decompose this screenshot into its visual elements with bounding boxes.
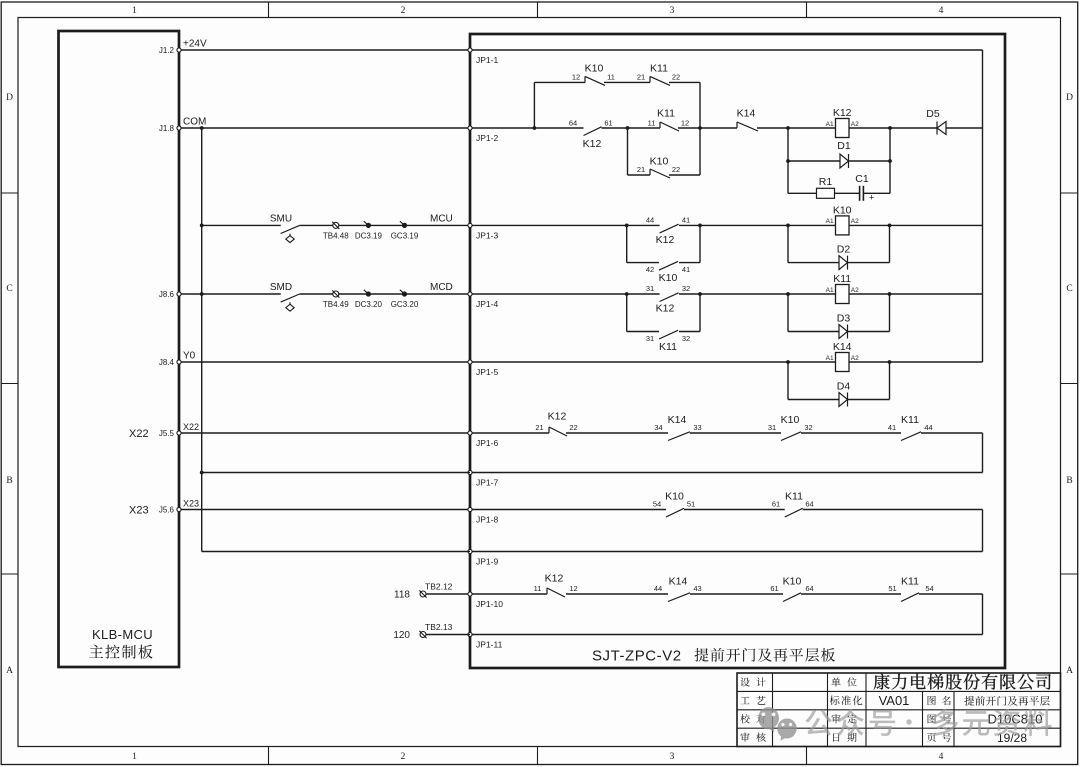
contact K12 44-41 (660, 224, 679, 233)
svg-text:X22: X22 (183, 422, 199, 432)
terminal JP1-3 (468, 223, 472, 227)
contact K14 44-43 (668, 593, 690, 602)
wire JP1-5 row segments (472, 361, 836, 363)
svg-text:JP1-1: JP1-1 (476, 55, 498, 65)
svg-text:D4: D4 (837, 381, 851, 393)
svg-text:+24V: +24V (183, 39, 207, 50)
junction COM bus SMU row (200, 224, 204, 228)
right board box SJT-ZPC-V2 (470, 34, 1005, 668)
junction JP1-4 x626 (625, 292, 629, 296)
svg-text:J5.5: J5.5 (159, 429, 175, 438)
svg-text:A1: A1 (826, 218, 834, 225)
svg-text:34: 34 (654, 423, 662, 432)
wire JP1-9 return row (472, 551, 983, 553)
junction JP1-4 x788 (786, 292, 790, 296)
junction JP1-2 row x890 (888, 126, 892, 130)
junction JP1-5 x788 (786, 360, 790, 364)
svg-text:A: A (1066, 666, 1073, 676)
svg-text:12: 12 (569, 584, 577, 593)
svg-text:D1: D1 (837, 140, 851, 152)
terminal J1.2 (177, 48, 181, 52)
svg-text:MCD: MCD (430, 282, 453, 293)
connector DC3.20 (366, 291, 371, 296)
svg-text:64: 64 (569, 119, 577, 128)
junction JP1-4 x700 (698, 292, 702, 296)
title label standardization (830, 695, 863, 705)
terminal JP1-7 (468, 470, 472, 474)
svg-text:J5.6: J5.6 (159, 506, 175, 515)
junction JP1-3 x890 (888, 224, 892, 228)
junction JP1-3 x788 (786, 224, 790, 228)
svg-text:11: 11 (607, 73, 615, 82)
svg-text:21: 21 (535, 423, 543, 432)
wire JP1-1 internal to right bus (472, 49, 983, 51)
zone dividers left (1, 192, 18, 194)
wire JP1-2 row segments (472, 127, 584, 129)
contact K11 51-54 (901, 593, 919, 602)
contact K11 21-22 (649, 76, 651, 82)
junction COM bus at J1.8 row (200, 126, 204, 130)
junction COM bus JP1-7 (200, 471, 204, 475)
svg-text:DC3.19: DC3.19 (355, 231, 383, 240)
svg-text:D: D (6, 93, 13, 103)
svg-text:A1: A1 (826, 287, 834, 294)
contact K10 31-32 (781, 432, 801, 441)
terminal JP1-8 (468, 507, 472, 511)
wire SMD row J8.6 to JP1-4 (181, 293, 281, 295)
svg-text:K10: K10 (781, 414, 800, 426)
svg-text:44: 44 (646, 216, 654, 225)
svg-text:X23: X23 (183, 498, 199, 508)
wire JP1-3 row segments (472, 224, 660, 226)
branch vertical x627 down (627, 128, 629, 175)
svg-text:K12: K12 (583, 138, 602, 150)
svg-text:54: 54 (653, 500, 661, 509)
terminal J5.5 (177, 431, 181, 435)
terminal J8.4 (177, 360, 181, 364)
terminal JP1-5 (468, 360, 472, 364)
connector TB2.13 (420, 632, 426, 638)
branch wire K10-K11 series top (534, 81, 585, 83)
svg-text:D5: D5 (926, 108, 940, 120)
svg-text:KLB-MCU: KLB-MCU (92, 627, 153, 642)
company name Canny Elevator Co Ltd (874, 674, 1051, 690)
connector TB2.12 (420, 591, 426, 597)
svg-text:12: 12 (681, 119, 689, 128)
watermark text gongzhonghao (805, 709, 895, 736)
svg-text:61: 61 (770, 584, 778, 593)
svg-text:31: 31 (646, 284, 654, 293)
junction D1 left (786, 159, 790, 163)
terminal JP1-4 (468, 292, 472, 296)
terminal JP1-10 (468, 592, 472, 596)
svg-text:12: 12 (572, 73, 580, 82)
zone dividers right (1061, 192, 1078, 194)
junction JP1-2 row x627 (626, 126, 630, 130)
junction JP1-3 x700 (698, 224, 702, 228)
title label review (740, 733, 749, 742)
svg-text:3: 3 (670, 6, 675, 16)
svg-text:K11: K11 (901, 575, 919, 587)
svg-text:21: 21 (637, 165, 645, 174)
branch vertical right x700 (699, 82, 701, 175)
svg-text:Y0: Y0 (183, 351, 196, 362)
title label proofread (740, 714, 750, 723)
wire JP1-6 row segments (472, 432, 550, 434)
svg-text:3: 3 (670, 752, 675, 762)
value drawing title CJK (964, 696, 1049, 706)
svg-text:K14: K14 (737, 108, 756, 120)
svg-text:33: 33 (693, 423, 701, 432)
svg-text:2: 2 (401, 752, 406, 762)
svg-text:41: 41 (682, 216, 690, 225)
terminal JP1-1 (468, 48, 472, 52)
svg-text:A2: A2 (851, 218, 859, 225)
capacitor C1 (859, 186, 861, 201)
svg-text:K12: K12 (656, 303, 675, 315)
svg-text:120: 120 (393, 630, 410, 641)
left board box KLB-MCU (59, 31, 180, 667)
branch wire K10 21-22 below (628, 174, 651, 176)
svg-text:22: 22 (569, 423, 577, 432)
resistor R1 (817, 188, 835, 198)
svg-text:11: 11 (534, 584, 542, 593)
connector GC3.20 (402, 291, 407, 296)
svg-text:J1.2: J1.2 (159, 46, 175, 55)
svg-text:A2: A2 (851, 287, 859, 294)
connector TB4.48 (333, 222, 339, 228)
svg-text:K12: K12 (548, 411, 567, 423)
relay coil K10 (836, 216, 850, 235)
svg-text:K10: K10 (783, 575, 802, 587)
svg-text:K14: K14 (669, 575, 688, 587)
U-turn vertical JP1-10 to JP1-11 (982, 594, 984, 635)
svg-text:A1: A1 (826, 121, 834, 128)
wire D1 branch (788, 160, 840, 162)
contact K12 64-61 (584, 127, 602, 136)
svg-text:43: 43 (693, 584, 701, 593)
svg-text:TB4.49: TB4.49 (323, 300, 349, 309)
switch SMU actuator diamond (286, 234, 294, 243)
svg-text:SMU: SMU (270, 213, 292, 224)
title label date (833, 733, 839, 742)
svg-text:31: 31 (646, 334, 654, 343)
wire +24V J1.2 to JP1-1 (181, 49, 471, 51)
svg-text:GC3.19: GC3.19 (391, 231, 419, 240)
wire JP1-7 return row (472, 472, 983, 474)
svg-text:JP1-8: JP1-8 (476, 515, 498, 525)
svg-text:X22: X22 (129, 428, 149, 440)
junction D1 right (888, 159, 892, 163)
terminal J8.6 (177, 292, 181, 296)
svg-text:32: 32 (682, 284, 690, 293)
svg-text:DC3.20: DC3.20 (355, 300, 383, 309)
title label page number (927, 733, 936, 742)
diode D3 branch (787, 294, 789, 332)
svg-text:41: 41 (682, 265, 690, 274)
switch SMD actuator diamond (286, 302, 294, 311)
svg-text:A1: A1 (826, 355, 834, 362)
svg-text:JP1-11: JP1-11 (476, 640, 503, 650)
svg-text:1: 1 (132, 6, 137, 16)
junction JP1-2 row x788 (786, 126, 790, 130)
svg-text:JP1-6: JP1-6 (476, 438, 498, 448)
wire R1-C1 branch (788, 192, 817, 194)
contact K12 31-32 (660, 293, 679, 302)
title label unit (831, 677, 840, 686)
contact K10 54-51 (666, 508, 684, 517)
svg-text:K10: K10 (833, 204, 852, 216)
svg-text:C: C (6, 284, 12, 294)
U-turn vertical JP1-8 to JP1-9 (982, 510, 984, 552)
title label drawing name (928, 696, 936, 705)
wire X23 row J5.6 to JP1-8 (181, 509, 471, 511)
parallel contact K10 42-41 branch (626, 225, 628, 262)
svg-text:32: 32 (682, 334, 690, 343)
svg-text:2: 2 (401, 6, 406, 16)
svg-text:11: 11 (648, 119, 656, 128)
svg-text:B: B (6, 476, 12, 486)
title block table (737, 673, 1061, 747)
svg-text:J8.6: J8.6 (159, 290, 175, 299)
switch SMD blade (281, 294, 300, 302)
svg-text:COM: COM (183, 117, 206, 128)
junction JP1-2 row x534 (533, 126, 537, 130)
svg-text:4: 4 (939, 6, 944, 16)
svg-text:K12: K12 (656, 234, 675, 246)
zone dividers bottom (268, 747, 270, 765)
terminal J5.6 (177, 507, 181, 511)
wire JP1-4 row segments (472, 293, 660, 295)
svg-text:D: D (1066, 93, 1073, 103)
title label drawing number (928, 714, 936, 723)
wire 118 to JP1-10 (426, 593, 470, 595)
svg-text:+: + (869, 192, 874, 202)
svg-text:C: C (1066, 284, 1072, 294)
svg-text:SMD: SMD (270, 282, 292, 293)
svg-text:K11: K11 (659, 341, 677, 353)
contact K11 61-64 (785, 508, 803, 517)
wire JP1-9 to COM bus (202, 551, 470, 553)
wire JP1-7 to COM bus (202, 472, 470, 474)
wire Y0 row J8.4 to JP1-5 (181, 361, 471, 363)
contact K14 34-33 (668, 432, 690, 441)
diode D4 branch (787, 362, 789, 400)
svg-text:R1: R1 (819, 176, 833, 188)
svg-text:31: 31 (768, 423, 776, 432)
zone dividers top (268, 2, 270, 18)
svg-text:A2: A2 (851, 355, 859, 362)
svg-text:X23: X23 (129, 505, 149, 517)
svg-text:K10: K10 (585, 62, 604, 74)
contact K12 11-12 (546, 588, 548, 594)
svg-text:K11: K11 (785, 491, 803, 503)
svg-text:K11: K11 (901, 414, 919, 426)
svg-text:K14: K14 (833, 341, 852, 353)
terminal JP1-11 (468, 632, 472, 636)
svg-text:4: 4 (939, 752, 944, 762)
svg-text:GC3.20: GC3.20 (391, 300, 419, 309)
svg-text:64: 64 (805, 500, 813, 509)
diode D5 (937, 122, 946, 135)
junction JP1-2 row x700 (698, 126, 702, 130)
junction JP1-3 x626 (625, 224, 629, 228)
svg-text:64: 64 (805, 584, 813, 593)
contact K10 21-22 lower (649, 169, 651, 175)
svg-text:K10: K10 (659, 272, 678, 284)
svg-text:TB2.13: TB2.13 (425, 622, 453, 632)
connector TB4.49 (333, 291, 339, 297)
title label process (740, 697, 749, 705)
relay coil K11 (836, 285, 850, 304)
watermark dot separator (906, 719, 911, 724)
wire COM J1.8 to JP1-2 (181, 127, 471, 129)
svg-text:SJT-ZPC-V2: SJT-ZPC-V2 (592, 648, 682, 665)
title label approve (831, 714, 840, 723)
svg-text:A: A (6, 666, 13, 676)
svg-text:21: 21 (637, 73, 645, 82)
svg-text:51: 51 (888, 584, 896, 593)
svg-text:JP1-2: JP1-2 (476, 133, 498, 143)
watermark text duoyuanziliao (932, 709, 1051, 736)
U-turn vertical JP1-6 to JP1-7 (982, 433, 984, 473)
diode D1 (840, 154, 849, 168)
label CJK early door open and releveling board (694, 648, 835, 662)
svg-text:54: 54 (925, 584, 933, 593)
svg-text:22: 22 (672, 165, 680, 174)
contact K10 12-11 (584, 76, 586, 82)
terminal J1.8 (177, 126, 181, 130)
parallel contact K11 31-32 branch (626, 294, 628, 332)
switch SMU blade (281, 225, 300, 233)
svg-text:J1.8: J1.8 (159, 124, 175, 133)
svg-text:TB2.12: TB2.12 (425, 582, 453, 592)
svg-text:K12: K12 (545, 572, 564, 584)
connector GC3.19 (402, 223, 407, 228)
wire JP1-8 row segments (472, 509, 667, 511)
svg-text:K11: K11 (657, 108, 675, 120)
contact K11 41-44 (901, 432, 921, 441)
wire 120 to JP1-11 (426, 634, 470, 636)
wire X22 row J5.5 to JP1-6 (181, 432, 471, 434)
connector DC3.19 (366, 223, 371, 228)
relay coil K12 (836, 119, 850, 138)
svg-text:22: 22 (672, 73, 680, 82)
svg-text:MCU: MCU (430, 213, 453, 224)
svg-text:A2: A2 (851, 121, 859, 128)
svg-text:41: 41 (888, 423, 896, 432)
watermark wechat icon (758, 707, 797, 741)
wire JP1-10 row segments (472, 593, 548, 595)
diode D2 branch (787, 225, 789, 262)
label CJK main control board (89, 645, 152, 659)
svg-text:42: 42 (646, 265, 654, 274)
svg-text:TB4.48: TB4.48 (323, 231, 349, 240)
svg-text:JP1-7: JP1-7 (476, 478, 498, 488)
svg-text:32: 32 (804, 423, 812, 432)
svg-text:61: 61 (604, 119, 612, 128)
branch vertical x788 to D1/R1 level (787, 128, 789, 193)
terminal JP1-9 (468, 549, 472, 553)
relay coil K14 (836, 353, 850, 372)
svg-text:D2: D2 (837, 244, 851, 256)
svg-text:JP1-5: JP1-5 (476, 367, 498, 377)
svg-text:K12: K12 (833, 107, 852, 119)
svg-text:51: 51 (687, 500, 695, 509)
svg-text:K14: K14 (668, 414, 687, 426)
left COM bus vertical (201, 128, 203, 552)
svg-text:JP1-10: JP1-10 (476, 599, 503, 609)
svg-text:61: 61 (772, 500, 780, 509)
svg-text:44: 44 (654, 584, 662, 593)
right bus vertical +24V (982, 50, 984, 362)
wire JP1-11 return row (472, 634, 983, 636)
junction COM bus SMD row (200, 292, 204, 296)
svg-text:VA01: VA01 (879, 693, 910, 708)
svg-text:1: 1 (132, 752, 137, 762)
title label design (740, 677, 749, 686)
svg-text:JP1-3: JP1-3 (476, 230, 498, 240)
branch vertical left x534 (533, 82, 535, 128)
svg-text:K10: K10 (650, 156, 669, 168)
terminal JP1-2 (468, 126, 472, 130)
contact K14 (736, 122, 738, 128)
branch vertical x890 to D1/R1 level (889, 128, 891, 193)
svg-text:JP1-4: JP1-4 (476, 299, 498, 309)
svg-text:118: 118 (394, 590, 410, 601)
svg-text:B: B (1066, 476, 1072, 486)
contact K12 21-22 (548, 427, 550, 433)
contact K11 11-12 (659, 122, 661, 128)
svg-text:K11: K11 (833, 273, 851, 285)
svg-text:J8.4: J8.4 (159, 358, 175, 367)
contact K10 61-64 (783, 593, 801, 602)
svg-text:D3: D3 (837, 313, 851, 325)
svg-text:44: 44 (924, 423, 932, 432)
svg-text:K11: K11 (650, 62, 668, 74)
junction JP1-4 x890 (888, 292, 892, 296)
wire SMU row from COM bus to JP1-3 (202, 224, 281, 226)
svg-text:K10: K10 (665, 491, 684, 503)
junction JP1-5 x890 (888, 360, 892, 364)
svg-text:JP1-9: JP1-9 (476, 557, 498, 567)
terminal JP1-6 (468, 431, 472, 435)
svg-text:C1: C1 (855, 173, 869, 185)
